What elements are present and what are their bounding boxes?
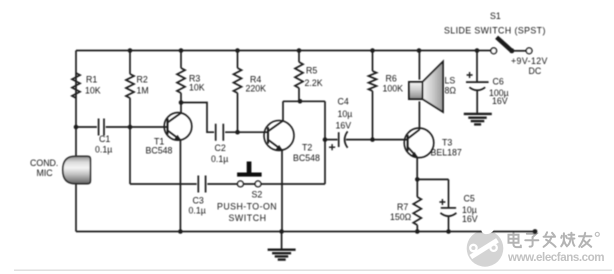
resistor R1 — [72, 73, 80, 98]
wire T2 collector — [282, 101, 284, 120]
node R2 T1 base — [128, 125, 133, 130]
svg-text:SLIDE SWITCH (SPST): SLIDE SWITCH (SPST) — [444, 26, 546, 36]
svg-text:1M: 1M — [137, 86, 149, 96]
wire T1 collector to C2 to T2 base — [181, 103, 268, 133]
svg-text:R5: R5 — [306, 66, 317, 76]
svg-text:10µ: 10µ — [338, 109, 353, 119]
loudspeaker LS — [409, 62, 443, 113]
svg-text:16V: 16V — [492, 96, 508, 106]
resistor R3 — [177, 68, 185, 93]
resistor R7 — [413, 197, 421, 225]
watermark logo slash and rings — [470, 240, 497, 257]
svg-text:BC548: BC548 — [293, 153, 320, 163]
svg-text:R2: R2 — [137, 75, 148, 85]
resistor R4 — [234, 68, 242, 93]
switch S2 push-to-on — [237, 162, 262, 187]
node R4 top rail — [235, 48, 240, 53]
node R5 top rail — [297, 48, 302, 53]
wire node to C4 and down to S2 wire — [324, 101, 326, 184]
wire R2 to C3 to S2 — [130, 183, 255, 185]
watermark text 电子发烧友 — [509, 232, 592, 247]
svg-text:COND.: COND. — [30, 158, 58, 168]
node R5 T2 collector — [298, 99, 303, 104]
wire R6 branch — [372, 51, 374, 140]
node ground rail center — [279, 229, 284, 234]
svg-text:10K: 10K — [189, 83, 205, 93]
resistor R2 — [126, 74, 134, 98]
wire top supply rail — [76, 50, 491, 52]
svg-text:R7: R7 — [397, 202, 408, 212]
transistor T2 — [264, 121, 294, 151]
wire T2 collector / R5 node — [283, 100, 325, 102]
svg-text:www.elecfans.com: www.elecfans.com — [507, 251, 604, 264]
svg-text:C3: C3 — [193, 196, 204, 206]
svg-text:0.1µ: 0.1µ — [211, 154, 228, 164]
svg-text:+9V-12V: +9V-12V — [511, 56, 548, 66]
wire R4 branch — [237, 51, 239, 133]
wire T3 collector to speaker — [418, 51, 420, 130]
watermark logo tail — [479, 221, 496, 237]
capacitor C3 — [198, 176, 205, 193]
node R2 top rail — [128, 48, 133, 53]
wire R7 branch — [416, 179, 418, 231]
svg-text:BEL187: BEL187 — [431, 148, 462, 158]
wire T1 collector — [180, 103, 182, 113]
svg-text:C2: C2 — [215, 143, 226, 153]
node R4 T2 base — [235, 130, 240, 135]
node C5 ground rail — [446, 229, 451, 234]
transistor T3 — [404, 128, 434, 158]
svg-text:220K: 220K — [246, 84, 267, 94]
svg-text:16V: 16V — [336, 121, 352, 131]
wire T1 emitter to ground rail — [179, 140, 181, 232]
watermark registered mark — [595, 232, 599, 236]
svg-text:T2: T2 — [302, 143, 312, 153]
resistor R5 — [295, 62, 303, 88]
svg-text:2.2K: 2.2K — [305, 78, 323, 88]
svg-text:0.1µ: 0.1µ — [189, 206, 206, 216]
wire R5 branch — [298, 51, 300, 102]
node T3 emitter — [415, 177, 420, 182]
svg-text:LS: LS — [445, 76, 456, 86]
transistor T1 — [164, 113, 192, 141]
svg-text:150Ω: 150Ω — [390, 212, 412, 222]
svg-text:100K: 100K — [383, 84, 404, 94]
node R3 T1 collector — [179, 100, 184, 105]
ground symbol C6 — [464, 114, 492, 125]
svg-text:MIC: MIC — [37, 168, 54, 178]
node LS top rail — [417, 48, 422, 53]
node C4 left — [323, 137, 328, 142]
wire bottom ground rail — [76, 231, 534, 233]
svg-text:C1: C1 — [99, 134, 110, 144]
svg-text:BC548: BC548 — [146, 146, 173, 156]
capacitor C2 — [216, 124, 224, 141]
svg-text:S1: S1 — [490, 11, 501, 21]
wire R3 branch — [180, 51, 182, 103]
ground symbol main — [268, 232, 296, 260]
wire T2 emitter to ground rail — [281, 150, 283, 231]
svg-text:C5: C5 — [464, 194, 475, 204]
svg-text:C6: C6 — [493, 77, 504, 87]
condenser microphone — [63, 156, 91, 183]
svg-text:SWITCH: SWITCH — [229, 213, 267, 223]
node R3 top rail — [179, 48, 184, 53]
svg-text:S2: S2 — [252, 190, 263, 200]
wire R2 branch — [129, 51, 131, 185]
capacitor C6 electrolytic — [466, 51, 489, 114]
capacitor C4 electrolytic — [325, 131, 408, 150]
capacitor C5 electrolytic — [439, 179, 456, 231]
switch S1 slide SPST — [491, 37, 532, 53]
node R6 T3 base — [370, 137, 375, 142]
node T1 emitter ground rail — [178, 229, 183, 234]
svg-text:C4: C4 — [338, 97, 349, 107]
page bottom border — [14, 269, 612, 271]
wire mic to C1 to T1 base — [76, 126, 168, 128]
svg-text:T3: T3 — [442, 138, 452, 148]
svg-text:R1: R1 — [86, 75, 97, 85]
svg-text:8Ω: 8Ω — [445, 86, 457, 96]
resistor R6 — [369, 71, 377, 91]
node mic C1 — [74, 125, 79, 130]
wire S2 to corner — [261, 183, 325, 185]
node R7 ground rail — [415, 229, 420, 234]
svg-text:PUSH-TO-ON: PUSH-TO-ON — [217, 202, 277, 212]
svg-text:10K: 10K — [85, 86, 101, 96]
wire left rail (mic branch) — [75, 51, 77, 232]
wire T3 emitter node — [417, 157, 448, 179]
node R6 top rail — [370, 48, 375, 53]
svg-text:DC: DC — [529, 66, 542, 76]
svg-text:16V: 16V — [462, 214, 478, 224]
node C6 top rail — [475, 48, 480, 53]
svg-text:R6: R6 — [386, 74, 397, 84]
watermark logo circle — [467, 230, 504, 267]
node rail end — [533, 229, 538, 234]
svg-text:0.1µ: 0.1µ — [95, 145, 112, 155]
capacitor C1 — [99, 119, 104, 136]
